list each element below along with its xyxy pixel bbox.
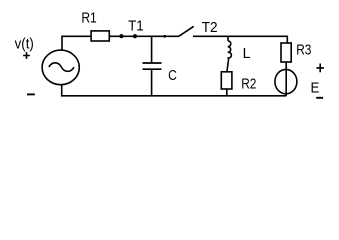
- resistor R3: [281, 43, 291, 62]
- wire inductor top lead: [227, 36, 229, 41]
- svg-text:R3: R3: [296, 42, 311, 59]
- svg-text:L: L: [243, 45, 251, 62]
- wire bottom rail: [62, 85, 287, 96]
- capacitor C bottom plate: [143, 68, 162, 70]
- plus sign at source v(t): [23, 52, 30, 59]
- svg-text:C: C: [168, 67, 177, 84]
- wire capacitor top lead: [151, 36, 153, 62]
- resistor R2: [221, 72, 232, 89]
- resistor R1: [91, 31, 109, 41]
- junction dot T1 left: [119, 34, 123, 38]
- minus sign at source E: [316, 97, 323, 99]
- source v(t) sine wave: [49, 63, 74, 72]
- wire R1 to switch pivot: [109, 35, 179, 37]
- wire R3 to E and through source E to bottom wire: [285, 62, 287, 96]
- switch T2 blade: [179, 26, 194, 36]
- svg-text:T2: T2: [202, 19, 218, 36]
- minus sign at source v(t): [27, 93, 35, 95]
- wire R2 bottom lead: [226, 89, 228, 96]
- inductor L coil: [228, 41, 232, 62]
- svg-text:T1: T1: [128, 18, 144, 35]
- source v(t) circle: [42, 50, 79, 85]
- junction dot T1 right: [133, 34, 137, 38]
- wire R3 top lead: [286, 36, 288, 43]
- capacitor C top plate: [143, 62, 162, 64]
- svg-text:R1: R1: [81, 9, 96, 26]
- wire switch to R3 branch: [193, 35, 288, 37]
- switch contact dot: [163, 35, 166, 38]
- source E circle: [275, 69, 297, 93]
- svg-text:E: E: [311, 79, 320, 96]
- wire inductor to R2: [227, 62, 228, 72]
- wire capacitor bottom lead: [151, 70, 153, 96]
- wire top-left from source to R1: [62, 36, 91, 50]
- svg-text:R2: R2: [241, 76, 256, 93]
- plus sign at source E: [316, 64, 324, 73]
- svg-text:v(t): v(t): [15, 35, 34, 52]
